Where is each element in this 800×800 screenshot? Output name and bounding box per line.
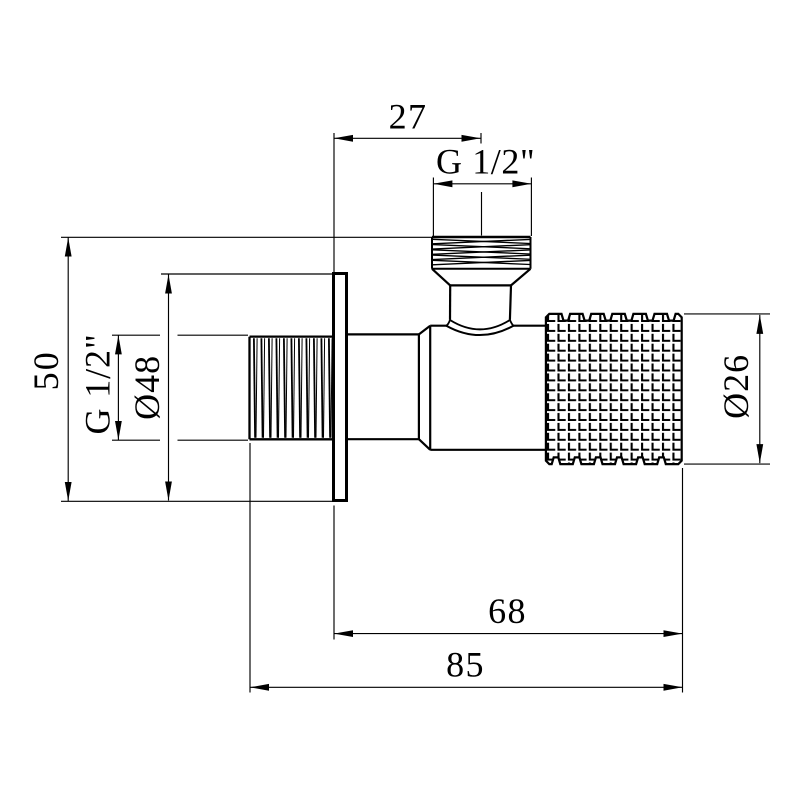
svg-text:Ø26: Ø26: [716, 354, 756, 419]
svg-text:G 1/2": G 1/2": [436, 141, 535, 181]
svg-text:27: 27: [389, 97, 428, 137]
svg-text:50: 50: [26, 350, 66, 390]
svg-text:G 1/2": G 1/2": [78, 333, 118, 434]
svg-text:68: 68: [488, 591, 527, 631]
svg-text:Ø48: Ø48: [127, 355, 167, 420]
svg-text:85: 85: [446, 645, 485, 685]
